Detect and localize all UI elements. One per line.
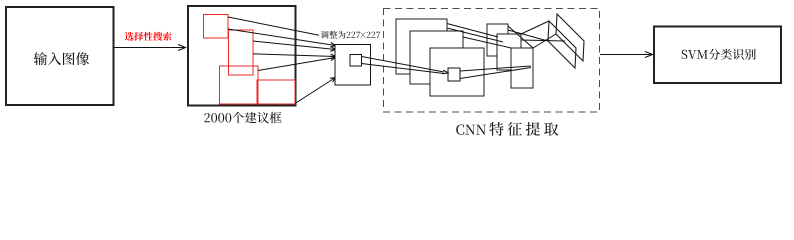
label: 输入图像 xyxy=(34,52,47,65)
CNN conv feature map R3 xyxy=(430,48,484,96)
connection lines conv -> fc parallelograms xyxy=(508,26,533,48)
CNN conv feature map R5 xyxy=(497,34,521,70)
label: SVM分类识别 xyxy=(682,50,688,59)
red proposal rect RD xyxy=(257,80,295,104)
CNN conv feature map R1 xyxy=(396,19,447,74)
red proposal rect RB xyxy=(229,30,254,75)
arrow: input image -> proposals box xyxy=(114,47,186,49)
box: 2000 proposal boxes container xyxy=(188,6,296,106)
label: 选择性搜索 (red) xyxy=(125,32,134,41)
box: input image (输入图像) xyxy=(6,7,114,105)
CNN conv feature map R4 xyxy=(487,24,508,56)
label: 2000个建议框 xyxy=(204,113,210,122)
arrow: CNN -> SVM xyxy=(600,54,652,56)
label: CNN特征提取 xyxy=(456,124,464,134)
CNN conv feature map R2 xyxy=(410,31,463,84)
line: proposal RA top edge to label area xyxy=(228,17,319,35)
red proposal rect RC xyxy=(220,66,259,104)
box: resized 227x227 patch xyxy=(335,45,371,86)
CNN fc layer parallelogram P2 (back) xyxy=(556,14,584,61)
red proposal rect RA xyxy=(204,15,229,39)
box: SVM classifier xyxy=(654,27,781,84)
converge lines: proposals -> resized patch xyxy=(228,29,336,46)
dashed box: CNN feature extraction xyxy=(384,9,600,113)
box: inner region of patch xyxy=(350,55,362,67)
CNN small mapped region box S xyxy=(448,68,460,81)
connection lines R1/R2 -> R4/R5/R6 xyxy=(447,24,498,38)
CNN conv feature map R6 xyxy=(511,48,533,88)
projection lines: patch -> region S xyxy=(362,57,445,73)
connection lines S -> R6 edge xyxy=(460,66,531,71)
CNN fc layer parallelogram P1 (front) xyxy=(548,21,576,68)
label: 调整为227×227 xyxy=(321,31,329,39)
